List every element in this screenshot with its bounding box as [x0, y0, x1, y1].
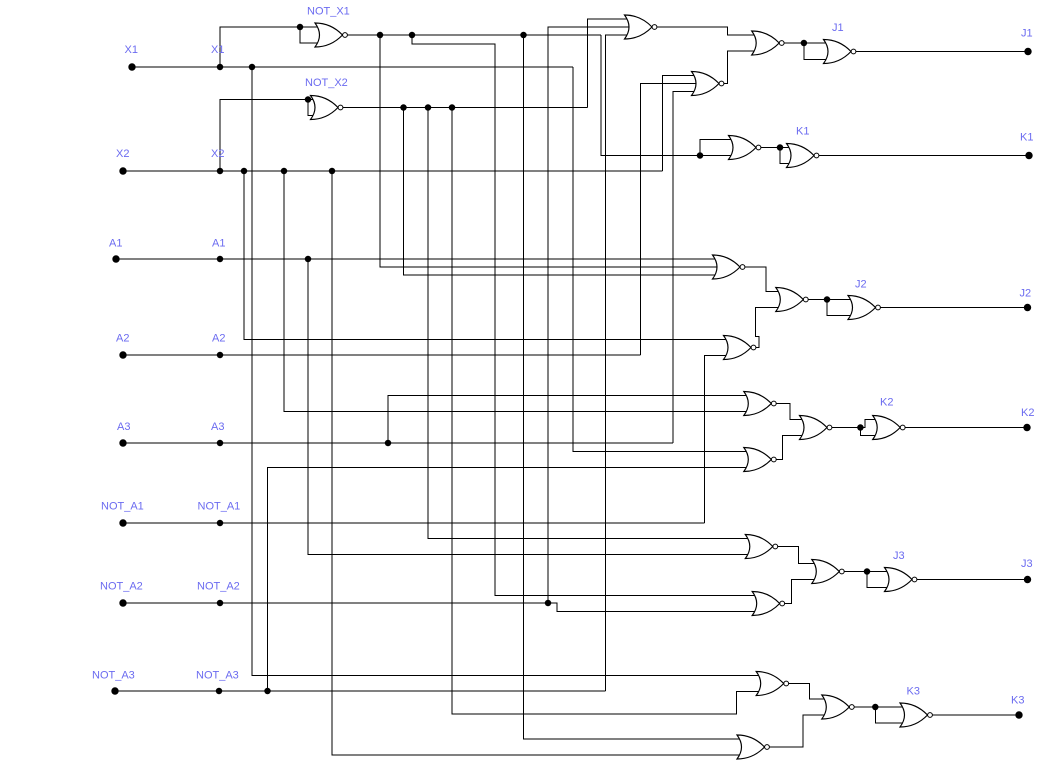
- wire NOT_X2 input loop: [308, 100, 316, 116]
- junction X2-K3b branch: [329, 168, 336, 175]
- wire J3b out to J3c bottom input: [785, 580, 817, 604]
- svg-text:NOT_X1: NOT_X1: [307, 6, 350, 18]
- wire U7 out to U9 top input: [745, 267, 781, 292]
- junction NOT_X2 out branch 2: [425, 104, 432, 111]
- NOR gate J3c: [812, 560, 844, 584]
- pin X2: [119, 167, 126, 174]
- svg-text:K3: K3: [1011, 695, 1024, 707]
- wire K1b input loop: [780, 148, 792, 164]
- junction A3-K2a branch: [385, 440, 392, 447]
- svg-text:NOT_A1: NOT_A1: [101, 501, 144, 513]
- junction X2-U8 branch: [241, 168, 248, 175]
- junction K1b input: [777, 144, 784, 151]
- wire K2 output: [905, 427, 1027, 429]
- pin A1: [112, 255, 119, 262]
- junction U10 input: [824, 296, 831, 303]
- NOR gate K2a: [744, 392, 776, 416]
- wire NOT_A3 row: [115, 690, 606, 692]
- svg-text:X1: X1: [211, 44, 224, 56]
- wire K2d lower input stub: [860, 428, 877, 436]
- wire K3 output: [933, 714, 1020, 716]
- wire NOT_X1 to K1a bottom input: [601, 35, 734, 156]
- wire K1a out to K1b: [761, 147, 792, 149]
- wire K1 output: [819, 155, 1029, 157]
- NOR gate K2d (K2 inverter): [873, 416, 905, 440]
- junction X1 label: [217, 64, 224, 71]
- junction NOT_X2 out branch 1: [400, 104, 407, 111]
- svg-text:K3: K3: [907, 686, 920, 698]
- svg-text:NOT_X2: NOT_X2: [305, 77, 348, 89]
- wire NOT_A2 row to J3b bottom input: [123, 603, 757, 612]
- wire K2b out to K2c bottom input: [776, 436, 804, 460]
- wire X2 row: [123, 170, 663, 172]
- junction NOT_A3-K2b branch: [264, 688, 271, 695]
- wire J3c out to J3d: [844, 571, 889, 573]
- pin K1: [1025, 152, 1032, 159]
- junction A2 label: [217, 352, 224, 359]
- wire K3b out to K3c bottom input: [770, 715, 827, 747]
- wire NOT_A2 to U3 middle input: [548, 27, 630, 603]
- wire X2 to K2a bottom input: [284, 171, 749, 412]
- junction A1 label: [217, 256, 224, 263]
- svg-text:K2: K2: [1021, 407, 1034, 419]
- NOR gate K3c: [822, 695, 854, 719]
- wire NOT_X2 top input: [308, 99, 316, 101]
- svg-text:X2: X2: [211, 148, 224, 160]
- wire J3d input loop: [867, 572, 890, 588]
- wire X1 to K3a top input: [252, 67, 761, 676]
- svg-text:A2: A2: [212, 333, 225, 345]
- pin NOT_A3: [111, 687, 118, 694]
- wire X1 to K2b top input: [573, 67, 749, 452]
- wire NOT_X2 output: [343, 107, 588, 109]
- wire K3d input loop: [875, 707, 905, 723]
- junction NOT_A2 label: [217, 600, 224, 607]
- junction X2 label: [217, 168, 224, 175]
- NOR gate NOT_X2 (inverter U2): [311, 96, 343, 120]
- pin X1: [128, 63, 135, 70]
- wire K3c out to K3d: [854, 706, 905, 708]
- NOR gate NOT_X1 (inverter U1): [315, 23, 347, 47]
- svg-text:K1: K1: [1020, 132, 1033, 144]
- junction K1a input: [697, 152, 704, 159]
- svg-text:X1: X1: [125, 44, 138, 56]
- svg-text:NOT_A2: NOT_A2: [100, 581, 143, 593]
- wire X2 riser to NOT_X2: [220, 100, 308, 172]
- wire X2 to U3 top input: [663, 76, 697, 172]
- wire U10 input loop: [827, 300, 853, 316]
- NOR gate U5: [752, 31, 784, 55]
- pin J3: [1024, 576, 1031, 583]
- wire X1 row: [132, 66, 573, 68]
- NOR gate J3a: [745, 535, 777, 559]
- NOR gate K1b (K1 inverter): [787, 144, 819, 168]
- 3-input NOR gate U7: [713, 255, 745, 279]
- svg-text:J3: J3: [1021, 558, 1033, 570]
- NOR gate J3b: [752, 592, 784, 616]
- svg-text:X2: X2: [116, 148, 129, 160]
- wire A2 row: [123, 354, 640, 356]
- svg-text:A2: A2: [116, 333, 129, 345]
- NOR gate K3d (K3 inverter): [900, 703, 932, 727]
- wire NOT_X1 top input: [300, 26, 320, 28]
- NOR gate U9: [776, 288, 808, 312]
- wire NOT_A3 to U3 bottom input: [606, 35, 630, 691]
- wire A2 to U4 middle input: [640, 84, 697, 356]
- wire J2 output: [881, 307, 1028, 309]
- junction A3 label: [217, 440, 224, 447]
- junction NOT_X2 out branch 3: [449, 104, 456, 111]
- svg-text:J3: J3: [893, 550, 905, 562]
- junction J3d input: [864, 568, 871, 575]
- NOR gate U8: [724, 336, 756, 360]
- NOR gate U10 (J2 inverter): [848, 296, 880, 320]
- svg-text:K2: K2: [880, 397, 893, 409]
- NOR gate K2c: [800, 416, 832, 440]
- wire X1 riser to NOT_X1: [220, 27, 300, 67]
- wire NOT_A3 to K2b bottom input: [268, 468, 749, 692]
- pin NOT_A1: [119, 519, 126, 526]
- svg-text:NOT_A1: NOT_A1: [198, 501, 241, 513]
- svg-text:A3: A3: [211, 421, 224, 433]
- junction X2-K2a branch: [281, 168, 288, 175]
- junction A1-J3a branch: [305, 256, 312, 263]
- wire K2d upper input stub: [860, 420, 877, 428]
- wire U6 input loop: [804, 43, 829, 60]
- junction NOT_A2-U3 branch: [545, 600, 552, 607]
- junction NOT_X1 input: [297, 24, 304, 31]
- 3-input NOR gate U4: [692, 72, 724, 96]
- svg-text:A3: A3: [117, 421, 130, 433]
- NOR gate K1a: [729, 136, 761, 160]
- wire A1 to J3a bottom input: [308, 259, 750, 555]
- junction NOT_A1 label: [217, 520, 224, 527]
- pin J1: [1024, 48, 1031, 55]
- wire A3 to K2a top input: [388, 396, 749, 444]
- wire K2c out: [832, 427, 860, 429]
- junction U6 input: [801, 40, 808, 47]
- NOR gate J3d (J3 inverter): [885, 568, 917, 592]
- wire NOT_X1 to J3b top input: [412, 35, 757, 596]
- junction NOT_X2 input: [305, 96, 312, 103]
- NOR gate U6 (J1 inverter): [824, 40, 856, 64]
- svg-text:A1: A1: [212, 238, 225, 250]
- svg-text:NOT_A3: NOT_A3: [196, 670, 239, 682]
- wire J1 output: [856, 51, 1028, 53]
- 3-input NOR gate U3: [625, 15, 657, 39]
- wire K2a out to K2c top input: [776, 404, 804, 420]
- wire NOT_X1 output: [348, 34, 602, 36]
- svg-text:NOT_A3: NOT_A3: [92, 670, 135, 682]
- junction NOT_A3 label: [216, 688, 223, 695]
- wire U8 out to U9 bottom input: [756, 308, 781, 348]
- svg-text:J1: J1: [832, 22, 844, 34]
- wire NOT_X2 to K3a bottom input: [452, 108, 761, 715]
- wire X2 to U8 top input: [244, 171, 729, 340]
- junction K3d input: [872, 704, 879, 711]
- wire K1a input loop: [700, 140, 734, 156]
- pin A3: [119, 439, 126, 446]
- svg-text:A1: A1: [109, 238, 122, 250]
- wire NOT_X1 input loop: [300, 27, 320, 43]
- wire NOT_X2 to J3a top input: [428, 108, 750, 539]
- wire NOT_X2 to U3 top input: [588, 19, 630, 108]
- NOR gate K2b: [744, 448, 776, 472]
- wire J3a out to J3c top input: [778, 547, 817, 564]
- svg-text:J2: J2: [855, 279, 867, 291]
- pin A2: [119, 351, 126, 358]
- svg-text:J2: J2: [1020, 288, 1032, 300]
- wire NOT_X1 to U7 middle input: [380, 35, 719, 267]
- NOR gate K3b: [737, 735, 769, 759]
- pin K2: [1023, 424, 1030, 431]
- pin J2: [1024, 304, 1031, 311]
- junction NOT_X1 out branch 1: [377, 32, 384, 39]
- wire NOT_X1 to K3b top input: [524, 35, 743, 739]
- junction NOT_X1 out branch 2: [409, 32, 416, 39]
- wire A1 row to U7 top input: [116, 258, 718, 260]
- NOR gate K3a: [756, 672, 788, 696]
- wire NOT_A1 to U8 bottom input: [705, 356, 729, 524]
- junction NOT_X1 out branch 3: [520, 32, 527, 39]
- wire NOT_X2 to U7 bottom input: [404, 108, 719, 276]
- wire K3a out to K3c top input: [789, 684, 827, 700]
- wire U3 out to U5 top input: [657, 27, 757, 35]
- junction X1-K3a branch: [249, 64, 256, 71]
- pin NOT_A2: [119, 599, 126, 606]
- svg-text:NOT_A2: NOT_A2: [197, 581, 240, 593]
- wire A3 to U4 bottom input: [673, 92, 697, 444]
- svg-text:K1: K1: [796, 126, 809, 138]
- wire U9 out to U10: [808, 299, 853, 301]
- junction K2d input: [857, 424, 864, 431]
- pin K3: [1015, 711, 1022, 718]
- wire J3 output: [917, 579, 1028, 581]
- svg-text:J1: J1: [1021, 28, 1033, 40]
- wire X2 to K3b bottom input: [332, 171, 742, 755]
- wire NOT_A1 row: [123, 522, 705, 524]
- wire U5 out to U6: [784, 42, 828, 44]
- wire A3 row: [123, 442, 673, 444]
- wire U4 out to U5 bottom input: [724, 51, 757, 84]
